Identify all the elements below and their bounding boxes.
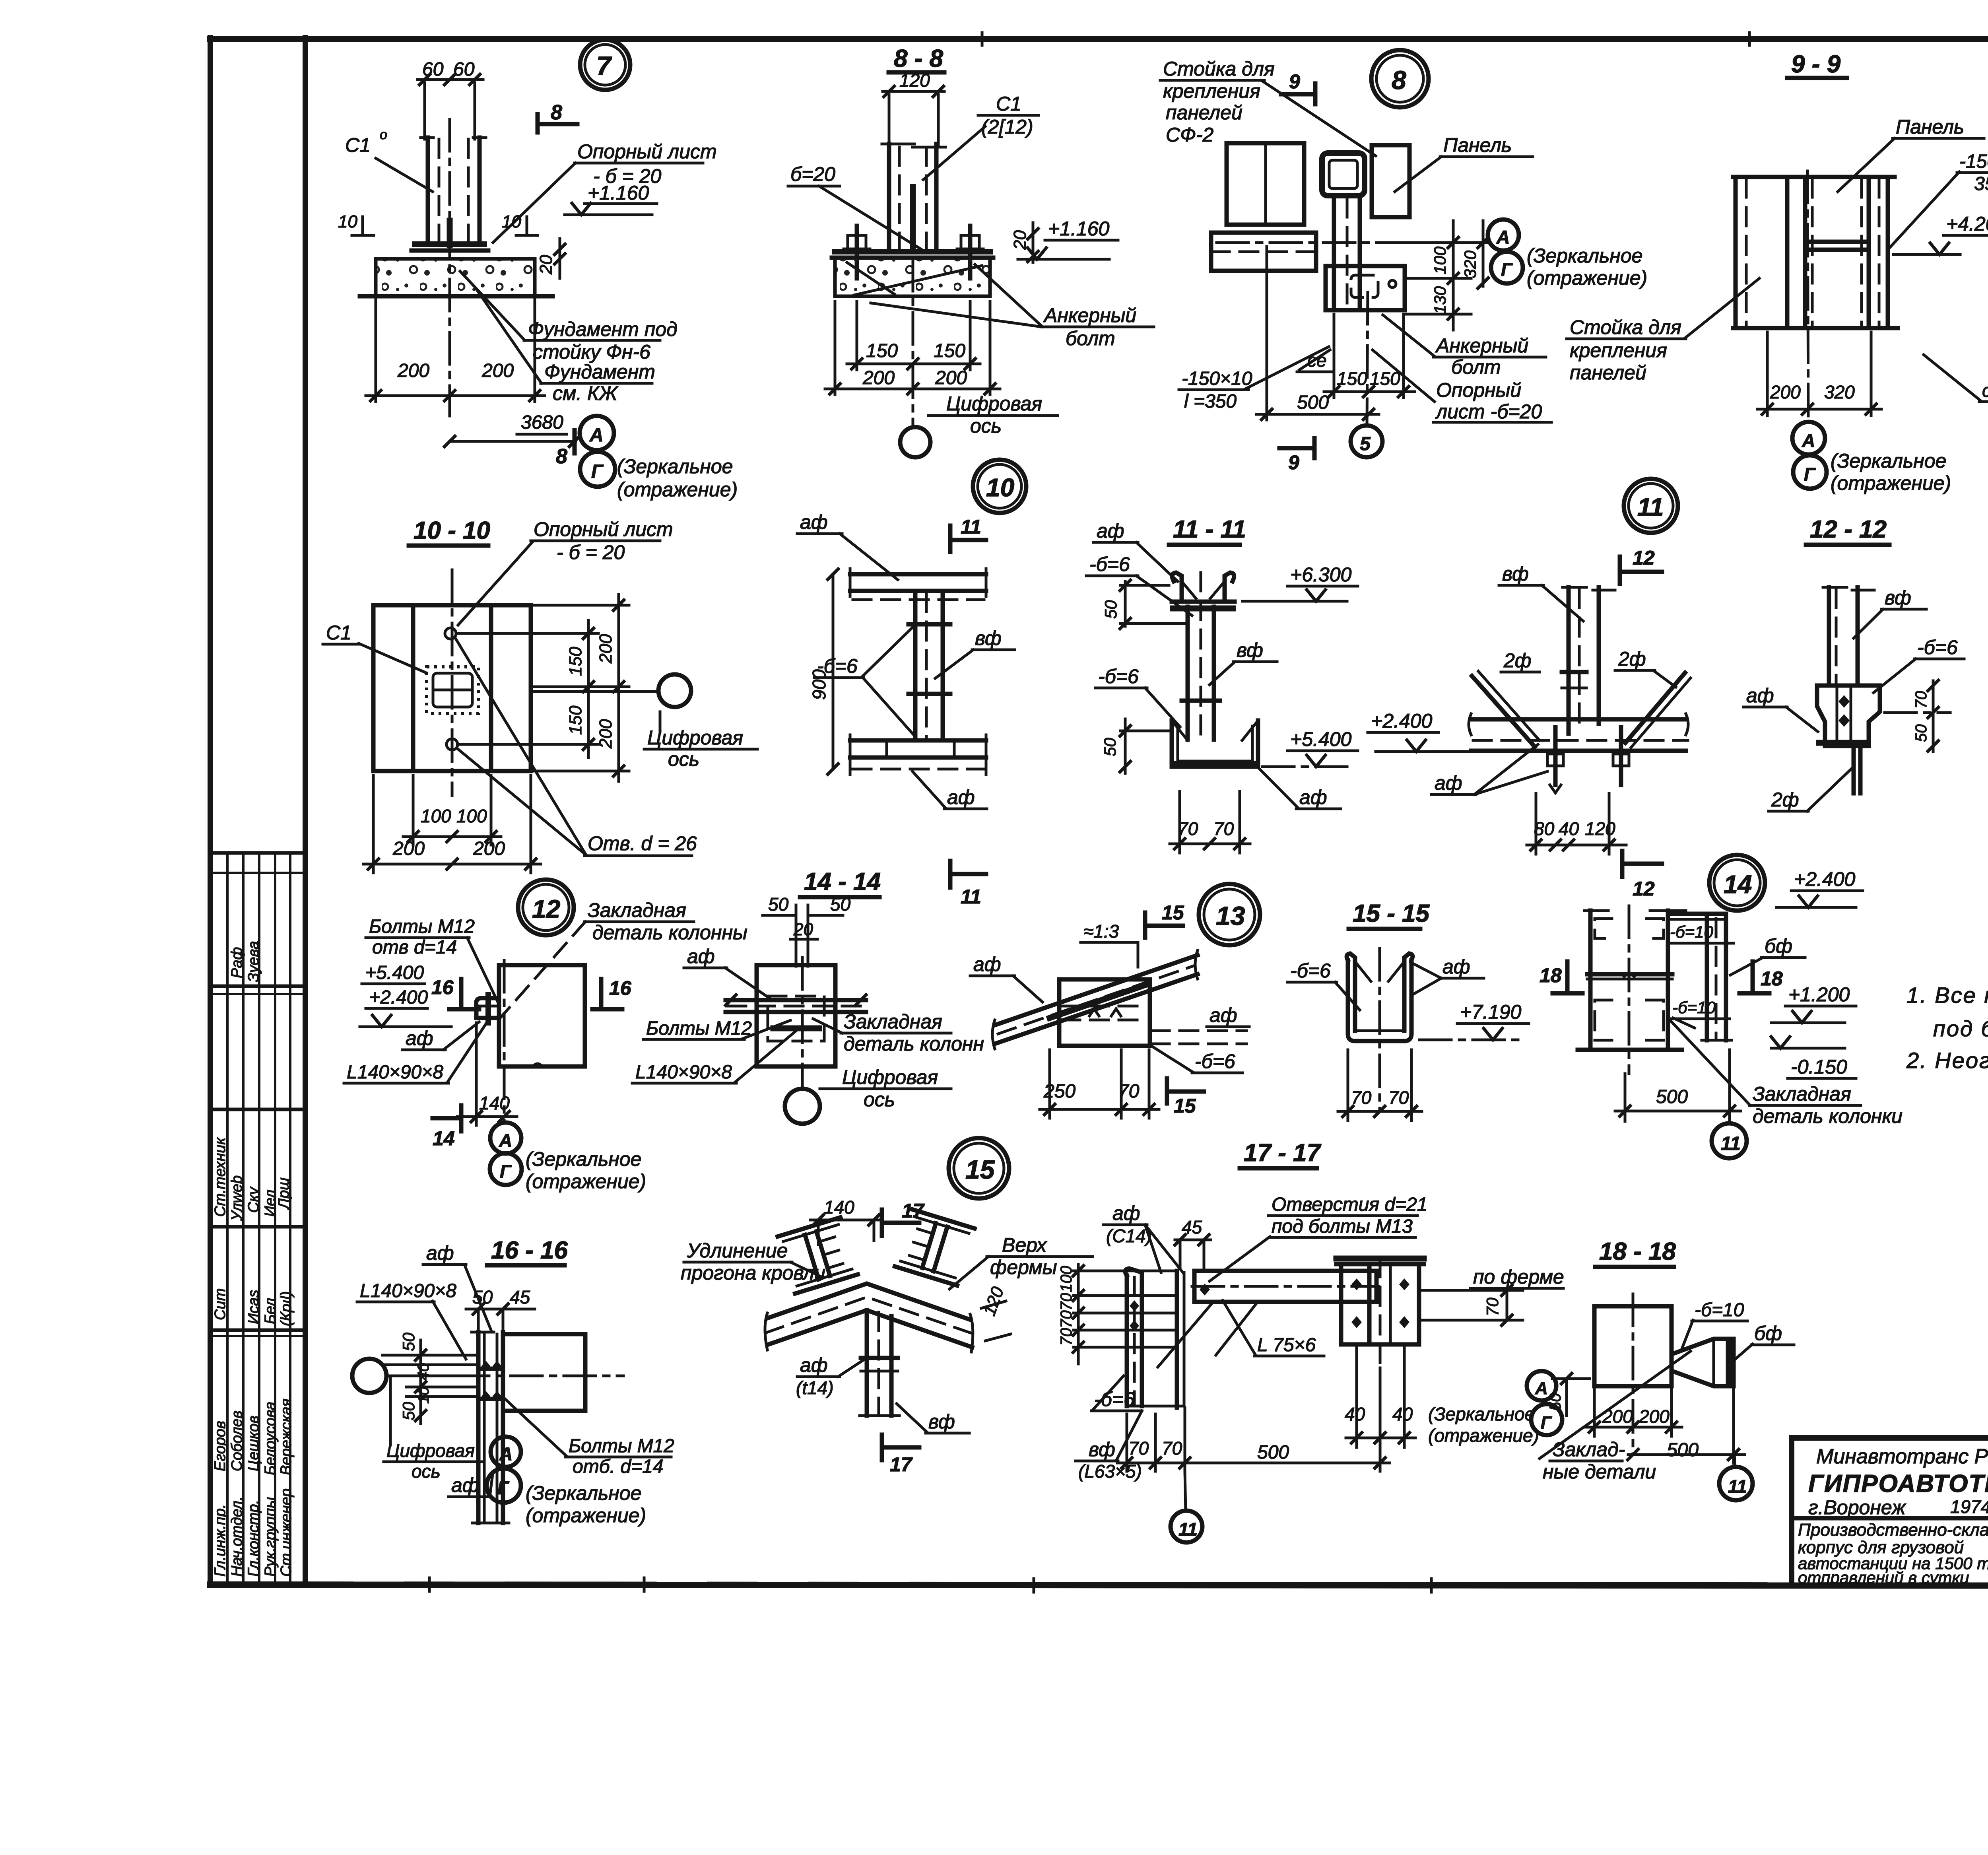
svg-text:≈1:3: ≈1:3 bbox=[1083, 921, 1119, 942]
node stand post bbox=[1567, 587, 1571, 734]
svg-text:отб. d=14: отб. d=14 bbox=[573, 1456, 663, 1477]
svg-text:250: 250 bbox=[1043, 1081, 1076, 1102]
svg-text:бф: бф bbox=[1754, 1322, 1782, 1344]
svg-text:фермы: фермы bbox=[990, 1256, 1057, 1278]
svg-text:А: А bbox=[499, 1443, 513, 1464]
svg-text:12: 12 bbox=[532, 895, 560, 923]
svg-text:70: 70 bbox=[1912, 691, 1930, 709]
node axis bubble 11 bbox=[1712, 1123, 1747, 1158]
svg-text:Ст.инженер: Ст.инженер bbox=[278, 1488, 295, 1577]
node embedded plate C1 bbox=[427, 667, 479, 713]
detail 8-8: column base section bbox=[788, 45, 1154, 513]
svg-text:12: 12 bbox=[1633, 547, 1655, 569]
svg-text:11: 11 bbox=[961, 516, 981, 538]
svg-text:аф: аф bbox=[800, 511, 828, 533]
svg-text:200: 200 bbox=[481, 360, 514, 381]
detail 7: column base on foundation bbox=[338, 40, 738, 501]
svg-text:130: 130 bbox=[1431, 286, 1449, 314]
svg-text:Ст.техник: Ст.техник bbox=[212, 1137, 229, 1217]
wire: long leader bbox=[1540, 1351, 1691, 1459]
svg-text:+2.400: +2.400 bbox=[1794, 868, 1856, 890]
svg-text:Минавтотранс РСФСР: Минавтотранс РСФСР bbox=[1816, 1445, 1988, 1468]
svg-text:100: 100 bbox=[1431, 246, 1449, 274]
sheet frame bbox=[210, 33, 1988, 1592]
svg-text:аф: аф bbox=[426, 1242, 454, 1264]
svg-text:отправлений в сутки: отправлений в сутки bbox=[1798, 1568, 1969, 1587]
svg-text:аф: аф bbox=[1209, 1004, 1237, 1026]
svg-text:8: 8 bbox=[1392, 65, 1406, 95]
svg-text:вф: вф bbox=[975, 627, 1002, 649]
node right purlin I-beam bbox=[895, 1209, 975, 1285]
node anchor bolt left bbox=[855, 226, 859, 278]
svg-text:Анкерный: Анкерный bbox=[1043, 304, 1136, 326]
svg-text:900: 900 bbox=[809, 669, 829, 700]
node ridge chords bbox=[767, 1284, 969, 1319]
node column 2C12 bbox=[882, 143, 914, 146]
svg-text:120: 120 bbox=[1585, 818, 1615, 839]
svg-text:(Зеркальное: (Зеркальное bbox=[1428, 1404, 1535, 1424]
svg-text:Закладная: Закладная bbox=[1753, 1083, 1851, 1105]
svg-text:Отв. d = 26: Отв. d = 26 bbox=[588, 832, 697, 855]
node hook bolt left bbox=[1553, 727, 1558, 785]
svg-text:150: 150 bbox=[566, 647, 585, 676]
svg-text:15: 15 bbox=[965, 1155, 995, 1184]
svg-text:+2.400: +2.400 bbox=[1371, 710, 1433, 732]
svg-text:120: 120 bbox=[899, 70, 930, 91]
detail 10: purlin to truss section bbox=[797, 511, 1015, 908]
svg-text:15: 15 bbox=[1174, 1095, 1196, 1117]
svg-text:аф: аф bbox=[1299, 786, 1327, 808]
notes Примечания bbox=[1906, 928, 1988, 1073]
svg-text:14: 14 bbox=[433, 1127, 455, 1150]
node section mark 15 (bottom) bbox=[1165, 1078, 1169, 1103]
svg-text:по ферме: по ферме bbox=[1473, 1266, 1564, 1288]
detail 15: ridge of roof purlins bbox=[681, 1138, 1093, 1476]
svg-text:L 75×6: L 75×6 bbox=[1257, 1334, 1316, 1356]
svg-text:под болты М16.: под болты М16. bbox=[1933, 1016, 1988, 1041]
node embedded channels (dashed) bbox=[1595, 919, 1612, 938]
detail 5: panel mounting stand plan bbox=[1160, 50, 1759, 474]
node axis bubble Г bbox=[1531, 1404, 1562, 1435]
node diagonal brace right 2ф bbox=[1625, 673, 1685, 743]
wire: dims 70 50 right bbox=[1932, 681, 1935, 752]
wire: dims right 150/150 200/200 bbox=[533, 604, 629, 607]
svg-text:100: 100 bbox=[1058, 1266, 1075, 1292]
svg-text:50: 50 bbox=[1547, 1393, 1564, 1411]
svg-text:вф: вф bbox=[1237, 639, 1263, 661]
svg-text:А: А bbox=[1496, 227, 1510, 247]
svg-text:11: 11 bbox=[1728, 1476, 1747, 1497]
svg-text:17: 17 bbox=[890, 1453, 913, 1476]
svg-text:50: 50 bbox=[399, 1402, 418, 1420]
wire: top frame bbox=[210, 36, 1988, 42]
node marker 13 bbox=[1199, 884, 1260, 945]
svg-text:200: 200 bbox=[596, 634, 615, 664]
node axis bubble 11 bbox=[1171, 1511, 1202, 1542]
svg-text:-б=6: -б=6 bbox=[1094, 1388, 1135, 1410]
svg-text:-б=10: -б=10 bbox=[1695, 1299, 1744, 1321]
node bolts bbox=[481, 1361, 501, 1401]
wire: column axis bbox=[1628, 906, 1631, 1074]
wire: stand axis down bbox=[1367, 292, 1368, 425]
svg-text:аф: аф bbox=[973, 953, 1001, 975]
svg-text:см. КЖ: см. КЖ bbox=[553, 382, 619, 404]
svg-text:+1.200: +1.200 bbox=[1788, 983, 1850, 1006]
wire: axis bbox=[801, 958, 804, 1074]
node apex post bbox=[865, 1310, 869, 1416]
svg-text:вф: вф bbox=[1885, 587, 1911, 609]
node marker 12 bbox=[518, 880, 574, 935]
svg-text:(отражение): (отражение) bbox=[526, 1504, 646, 1527]
svg-text:Фундамент: Фундамент bbox=[544, 361, 655, 383]
svg-text:-б=6: -б=6 bbox=[1089, 553, 1130, 575]
node hook bolt right bbox=[1619, 727, 1623, 785]
svg-text:ные детали: ные детали bbox=[1543, 1461, 1656, 1483]
svg-text:Опорный лист: Опорный лист bbox=[534, 518, 673, 540]
svg-text:ось: ось bbox=[668, 748, 699, 770]
svg-text:1974г.: 1974г. bbox=[1950, 1496, 1988, 1517]
wire: border registration ticks bbox=[428, 1578, 431, 1591]
svg-text:Анкерный: Анкерный bbox=[1435, 334, 1528, 357]
svg-text:Рук.группы: Рук.группы bbox=[262, 1497, 279, 1577]
node section mark 12 (bottom) bbox=[1620, 851, 1625, 877]
detail 9-9: panel stand section bbox=[1733, 51, 1988, 494]
svg-text:50: 50 bbox=[1912, 725, 1930, 742]
node section mark 17 (bottom) bbox=[880, 1435, 884, 1460]
node section mark 9 (top) bbox=[1313, 84, 1318, 104]
svg-text:10: 10 bbox=[986, 473, 1014, 502]
node stand column bbox=[1332, 196, 1336, 310]
svg-text:16 - 16: 16 - 16 bbox=[491, 1237, 568, 1264]
svg-text:70: 70 bbox=[1483, 1298, 1502, 1316]
node panels top line bbox=[1733, 175, 1895, 179]
svg-text:15: 15 bbox=[1162, 901, 1184, 924]
wire: outer left sheet edge bbox=[208, 38, 213, 1585]
svg-text:-б=6: -б=6 bbox=[1290, 960, 1331, 982]
svg-text:17 - 17: 17 - 17 bbox=[1244, 1139, 1322, 1167]
detail 17-17: beam to truss connection bbox=[1058, 1139, 1590, 1542]
wire: horizontal axis through stand bbox=[1217, 241, 1488, 244]
node base plate bbox=[415, 241, 484, 247]
node anchor bolt right bbox=[968, 226, 973, 278]
svg-text:аф: аф bbox=[1435, 772, 1462, 794]
svg-text:под болты М13: под болты М13 bbox=[1272, 1216, 1413, 1237]
svg-text:Закладная: Закладная bbox=[588, 899, 686, 921]
node axis bubble Г bbox=[1793, 455, 1827, 489]
svg-text:L140×90×8: L140×90×8 bbox=[360, 1280, 456, 1301]
svg-text:прогона кровли: прогона кровли bbox=[681, 1262, 825, 1284]
svg-text:болт: болт bbox=[1451, 356, 1501, 378]
svg-text:Белоусова: Белоусова bbox=[262, 1402, 279, 1475]
svg-text:10 - 10: 10 - 10 bbox=[414, 517, 490, 544]
node rod below bbox=[1852, 746, 1856, 793]
detail 18-18: embedded plate with shoe bbox=[1540, 1238, 1794, 1500]
node panels bottom line bbox=[1733, 326, 1898, 330]
node support plate with anchor bbox=[1326, 266, 1405, 310]
svg-text:9: 9 bbox=[1288, 451, 1299, 474]
svg-text:50: 50 bbox=[1101, 738, 1119, 756]
svg-text:320: 320 bbox=[1461, 250, 1479, 278]
svg-text:40: 40 bbox=[1559, 818, 1579, 839]
svg-text:50: 50 bbox=[830, 894, 851, 915]
svg-text:аф: аф bbox=[1112, 1202, 1140, 1224]
svg-text:Г: Г bbox=[497, 1478, 509, 1498]
svg-text:3680: 3680 bbox=[521, 412, 563, 433]
node stand flange left bbox=[1803, 177, 1807, 328]
node marker 10 bbox=[973, 460, 1026, 513]
wire: center axis bbox=[1807, 171, 1808, 422]
node purlin channel (top) bbox=[1172, 573, 1182, 600]
svg-text:Цифровая: Цифровая bbox=[647, 726, 743, 749]
svg-text:Г: Г bbox=[1804, 464, 1816, 485]
node section mark 16 right bbox=[599, 979, 604, 1006]
node shoe channel bbox=[1172, 721, 1258, 767]
svg-text:70: 70 bbox=[1058, 1328, 1075, 1346]
node beam L75x6 bbox=[1194, 1271, 1376, 1302]
svg-text:С1: С1 bbox=[996, 93, 1021, 115]
svg-text:А: А bbox=[1535, 1379, 1548, 1398]
svg-text:150: 150 bbox=[1337, 368, 1367, 389]
svg-text:8: 8 bbox=[556, 445, 567, 468]
wire: dims right 100 130 320 bbox=[1409, 241, 1488, 244]
svg-text:11: 11 bbox=[1178, 1519, 1198, 1540]
svg-text:ГИПРОАВТОТРАНС: ГИПРОАВТОТРАНС bbox=[1808, 1470, 1988, 1498]
svg-text:50: 50 bbox=[768, 894, 789, 915]
svg-text:+5.400: +5.400 bbox=[365, 962, 424, 983]
node top flange bbox=[850, 572, 986, 577]
svg-text:лист -б=20: лист -б=20 bbox=[1435, 400, 1542, 423]
detail 14-14: embedded plate with beam plan bbox=[632, 868, 984, 1124]
svg-text:60: 60 bbox=[453, 59, 475, 80]
svg-text:200: 200 bbox=[596, 719, 615, 749]
svg-text:Улweb: Улweb bbox=[229, 1175, 245, 1221]
node beam strip through bbox=[726, 998, 866, 1002]
wire: bottom frame bbox=[210, 1585, 1988, 1586]
svg-text:(Зеркальное: (Зеркальное bbox=[1527, 245, 1642, 267]
detail 11-11: post on chord section bbox=[1086, 516, 1358, 853]
node foundation block bbox=[376, 259, 535, 296]
svg-text:150: 150 bbox=[866, 340, 898, 361]
svg-text:Фундамент под: Фундамент под bbox=[528, 318, 678, 340]
svg-text:деталь колонны: деталь колонны bbox=[592, 921, 747, 944]
svg-text:16: 16 bbox=[431, 976, 454, 998]
svg-text:Гл.констр.: Гл.констр. bbox=[245, 1500, 262, 1577]
svg-text:Раф: Раф bbox=[229, 947, 245, 978]
svg-text:Г: Г bbox=[1541, 1413, 1552, 1432]
svg-text:(Зеркальное: (Зеркальное bbox=[1831, 450, 1946, 472]
svg-text:Заклад-: Заклад- bbox=[1553, 1438, 1625, 1461]
node axis bubble Г bbox=[580, 452, 615, 487]
svg-text:50: 50 bbox=[399, 1332, 418, 1351]
svg-text:-б=10: -б=10 bbox=[1672, 998, 1716, 1017]
detail 16-16: bracket section bbox=[352, 1237, 674, 1527]
svg-text:Стойка для: Стойка для bbox=[1163, 58, 1275, 80]
svg-text:70: 70 bbox=[1162, 1438, 1182, 1459]
node truss chord bbox=[1471, 717, 1686, 722]
svg-text:Болты М12: Болты М12 bbox=[646, 1018, 752, 1039]
svg-text:10: 10 bbox=[338, 212, 357, 231]
node axis bubble A bbox=[490, 1123, 521, 1154]
svg-text:200: 200 bbox=[862, 367, 895, 388]
svg-text:С1: С1 bbox=[326, 622, 351, 644]
svg-text:40: 40 bbox=[415, 1363, 432, 1381]
node base plate bbox=[835, 249, 990, 254]
svg-text:Егоров: Егоров bbox=[212, 1421, 229, 1471]
node marker 7 bbox=[580, 40, 630, 90]
svg-text:18: 18 bbox=[1761, 967, 1783, 990]
node marker 11 bbox=[1624, 479, 1678, 533]
svg-text:Закладная: Закладная bbox=[844, 1010, 942, 1033]
svg-text:аф: аф bbox=[1746, 684, 1774, 707]
svg-text:Иcas: Иcas bbox=[245, 1290, 262, 1324]
node marker 8 bbox=[1371, 50, 1429, 107]
svg-text:Нач.отдел.: Нач.отдел. bbox=[229, 1497, 245, 1577]
node gusset assembly right bbox=[1341, 1264, 1419, 1344]
detail 10-10: base plate plan bbox=[323, 517, 757, 873]
svg-text:2ф: 2ф bbox=[1618, 648, 1646, 670]
node left panel bbox=[1734, 177, 1738, 328]
svg-text:7: 7 bbox=[596, 51, 612, 80]
svg-text:(2[12): (2[12) bbox=[981, 116, 1033, 138]
node axis bubble bbox=[785, 1089, 820, 1124]
svg-text:18: 18 bbox=[1540, 964, 1562, 987]
svg-text:-0.150: -0.150 bbox=[1791, 1056, 1847, 1078]
svg-text:+4.200: +4.200 bbox=[1946, 213, 1988, 235]
node beam right bbox=[503, 1334, 585, 1411]
svg-text:Г: Г bbox=[1501, 259, 1513, 280]
svg-text:13: 13 bbox=[1216, 901, 1245, 930]
node level -0.150 bbox=[1771, 1047, 1845, 1050]
svg-text:-б=6: -б=6 bbox=[1917, 636, 1958, 658]
node stand web bbox=[1805, 240, 1869, 244]
svg-text:500: 500 bbox=[1257, 1442, 1289, 1463]
svg-text:70: 70 bbox=[1058, 1293, 1075, 1311]
svg-text:40: 40 bbox=[1345, 1404, 1365, 1424]
svg-text:Вережская: Вережская bbox=[278, 1399, 295, 1475]
svg-text:деталь колонки: деталь колонки bbox=[1753, 1105, 1903, 1127]
svg-text:Отверстия d=21: Отверстия d=21 bbox=[1272, 1194, 1427, 1215]
node axis bubble A bbox=[1792, 422, 1825, 455]
node axis bubble Г bbox=[487, 1468, 521, 1503]
node splice joint bbox=[1587, 972, 1672, 977]
node foundation bbox=[835, 258, 990, 296]
svg-text:(отражение): (отражение) bbox=[526, 1170, 646, 1193]
node embedded inner plate bbox=[768, 996, 824, 1041]
svg-text:аф: аф bbox=[947, 786, 975, 808]
svg-text:10: 10 bbox=[502, 212, 521, 231]
node stand flange right with panel bbox=[1860, 179, 1863, 326]
node wall panel upper left bbox=[1227, 143, 1304, 225]
svg-text:12 - 12: 12 - 12 bbox=[1810, 516, 1887, 543]
node marker 14 bbox=[1709, 855, 1765, 911]
node attached beam right bbox=[1668, 912, 1726, 916]
node angle bracket on edge bbox=[476, 998, 499, 1018]
node post bbox=[476, 1332, 481, 1523]
node sloped member bbox=[995, 955, 1198, 1025]
svg-text:Соболев: Соболев bbox=[229, 1410, 245, 1471]
wire: column axis bbox=[448, 119, 451, 416]
node hole top bbox=[445, 628, 456, 639]
svg-text:+5.400: +5.400 bbox=[1290, 728, 1352, 750]
svg-text:Панель: Панель bbox=[1443, 134, 1512, 156]
svg-text:(Зеркальное: (Зеркальное bbox=[526, 1482, 641, 1504]
svg-text:11 - 11: 11 - 11 bbox=[1173, 516, 1246, 543]
svg-text:се: се bbox=[1982, 380, 1988, 401]
svg-text:(отражение): (отражение) bbox=[617, 478, 738, 501]
svg-text:Производственно-складской: Производственно-складской bbox=[1798, 1520, 1988, 1540]
svg-text:2. Неоговоренные швы 6 мм.: 2. Неоговоренные швы 6 мм. bbox=[1906, 1048, 1988, 1073]
svg-text:(t14): (t14) bbox=[796, 1377, 834, 1398]
svg-text:бф: бф bbox=[1765, 935, 1792, 957]
svg-text:8 - 8: 8 - 8 bbox=[894, 45, 944, 72]
svg-text:150: 150 bbox=[934, 340, 965, 361]
node section mark 18 right bbox=[1751, 961, 1755, 991]
svg-text:15 - 15: 15 - 15 bbox=[1353, 900, 1430, 927]
svg-text:Верх: Верх bbox=[1002, 1234, 1047, 1256]
wire: dim 900 bbox=[832, 574, 835, 769]
node hole bottom bbox=[447, 739, 458, 750]
svg-text:Цифровая: Цифровая bbox=[386, 1440, 475, 1461]
svg-text:-150×10: -150×10 bbox=[1959, 151, 1988, 172]
svg-text:+1.160: +1.160 bbox=[588, 182, 649, 204]
detail 14: column splice with embedded parts bbox=[1540, 855, 1903, 1158]
label ce slope mark bbox=[1299, 350, 1330, 370]
detail 12: bracket on column bbox=[344, 880, 747, 1193]
svg-text:г.Воронеж: г.Воронеж bbox=[1808, 1496, 1906, 1519]
node axis bubble bbox=[352, 1359, 386, 1393]
node axis bubble right bbox=[658, 674, 691, 707]
svg-text:аф: аф bbox=[451, 1474, 479, 1496]
svg-text:70: 70 bbox=[1128, 1438, 1149, 1459]
svg-text:70: 70 bbox=[1388, 1087, 1409, 1108]
svg-text:-б=6: -б=6 bbox=[1098, 665, 1139, 688]
node column face bbox=[499, 965, 585, 1066]
svg-text:Цешков: Цешков bbox=[245, 1416, 262, 1471]
svg-text:аф: аф bbox=[406, 1027, 433, 1049]
svg-text:11: 11 bbox=[1637, 493, 1664, 521]
svg-text:СФ-2: СФ-2 bbox=[1166, 124, 1214, 146]
node wall panel right bbox=[1372, 145, 1409, 217]
svg-text:(отражение): (отражение) bbox=[1428, 1425, 1539, 1446]
node axis bubble Г bbox=[1491, 252, 1523, 284]
svg-text:б=20: б=20 bbox=[790, 163, 835, 185]
svg-text:Болты М12: Болты М12 bbox=[369, 916, 475, 937]
node section mark 14 bbox=[459, 1105, 464, 1131]
wire: weld seam bbox=[447, 221, 453, 246]
svg-text:(отражение): (отражение) bbox=[1831, 472, 1951, 494]
svg-text:11: 11 bbox=[1721, 1133, 1741, 1154]
svg-text:20: 20 bbox=[536, 255, 556, 275]
node stand square tube (plan) bbox=[1322, 153, 1365, 196]
node shoe bbox=[1817, 686, 1880, 746]
wire: vertical axis bbox=[451, 570, 454, 796]
node column C1 (two channels) bbox=[426, 138, 430, 245]
svg-text:100: 100 bbox=[456, 806, 487, 826]
wire: left small dims 50 40 40 10 16 50 bbox=[382, 1354, 478, 1357]
svg-text:500: 500 bbox=[1297, 392, 1329, 413]
svg-text:12: 12 bbox=[1633, 878, 1655, 900]
svg-text:ось: ось bbox=[970, 415, 1002, 437]
svg-text:аф: аф bbox=[1442, 956, 1470, 978]
node axis bubble A bbox=[491, 1437, 521, 1467]
svg-text:200: 200 bbox=[473, 838, 505, 859]
svg-text:болт: болт bbox=[1066, 327, 1115, 350]
detail 15-15: channel section bbox=[1287, 900, 1529, 1121]
svg-text:деталь колонн: деталь колонн bbox=[844, 1033, 984, 1055]
wire: center axis bbox=[1378, 948, 1381, 1111]
node axis bubble A bbox=[1527, 1371, 1556, 1400]
svg-text:(Крıl): (Крıl) bbox=[278, 1291, 295, 1326]
